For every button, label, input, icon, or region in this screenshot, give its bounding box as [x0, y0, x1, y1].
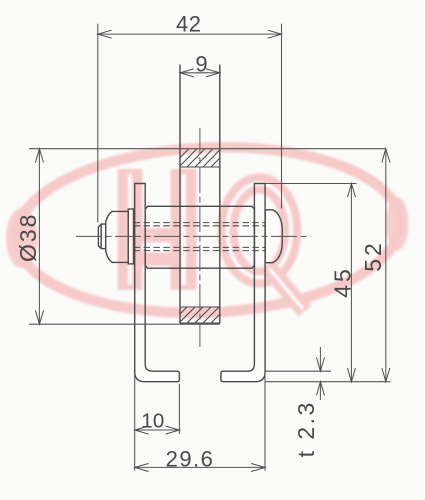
hub bushing	[145, 206, 254, 268]
wheel centerline vertical	[199, 128, 201, 347]
extension line channel top right	[265, 183, 356, 185]
t2.3 upper arrow	[319, 347, 321, 371]
bolt head dome	[265, 210, 282, 263]
svg-text:52: 52	[360, 240, 386, 272]
wheel right side + extension to 9 dim	[219, 65, 221, 324]
t2.3 lower arrow	[319, 382, 321, 400]
extension line left plate outer below bend	[134, 372, 136, 471]
wheel rim inner edge top	[180, 166, 220, 168]
hidden thread lines	[134, 222, 266, 224]
svg-text:9: 9	[195, 52, 207, 77]
watermark ellipse left lobe	[6, 208, 38, 268]
shared extension line wheel top / dia38 / 52	[29, 148, 386, 150]
extension line left for 42	[97, 24, 99, 223]
hex nut	[106, 211, 129, 262]
washer	[128, 209, 133, 264]
wheel rim inner edge bottom	[180, 306, 220, 308]
left channel angle piece	[135, 184, 180, 382]
dimension line 10	[135, 429, 180, 431]
dimension line 29.6	[135, 466, 265, 468]
watermark letter H	[118, 169, 197, 290]
extension line dia38 bottom	[29, 323, 220, 325]
extension line right plate outer below bend	[264, 372, 266, 471]
extension line flange top right	[265, 370, 331, 372]
svg-text:t 2.3: t 2.3	[293, 400, 319, 457]
extension line right for 42	[281, 24, 283, 209]
svg-text:Ø38: Ø38	[15, 213, 41, 262]
svg-text:10: 10	[141, 410, 164, 433]
axle centerline horizontal	[76, 235, 311, 237]
watermark ellipse ring	[13, 139, 404, 321]
svg-text:29.6: 29.6	[166, 446, 215, 471]
bolt tip chamfer line	[100, 224, 102, 249]
hatch bottom band	[162, 306, 236, 324]
watermark letter Q	[227, 183, 305, 311]
dimension line dia38	[38, 149, 40, 325]
dimension line 42	[98, 33, 282, 35]
extension line flange bottom right	[265, 381, 390, 383]
bolt threaded tip	[98, 224, 105, 249]
dimension line 52	[385, 149, 387, 382]
watermark ellipse right lobe	[386, 197, 409, 251]
dimension line 45	[350, 184, 352, 382]
svg-text:42: 42	[176, 11, 201, 36]
extension line flange end for 10	[178, 384, 180, 434]
hatch top band	[162, 148, 238, 168]
svg-text:45: 45	[329, 266, 355, 298]
wheel left side + extension to 9 dim	[179, 65, 181, 324]
dimension line 9	[180, 72, 220, 74]
right channel angle piece	[221, 184, 265, 382]
wheel bottom edge	[180, 322, 220, 324]
